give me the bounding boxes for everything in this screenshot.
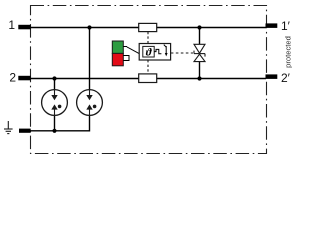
dashed actuator link R1 to thermal box <box>147 32 149 44</box>
enclosure dash-dot border <box>31 6 267 154</box>
wire line 2 (terminal 2 to 2') <box>22 78 266 80</box>
TVS bidirectional suppressor diode D1 <box>194 44 205 61</box>
wire TVS branch (line 1 to line 2) <box>199 28 201 79</box>
status indicator green flag <box>112 41 123 53</box>
junction node line2/GDT1 <box>52 76 56 80</box>
junction node ground/GDT1 <box>52 129 56 133</box>
svg-text:protected: protected <box>284 36 293 68</box>
thermal element box with theta <box>143 46 154 57</box>
terminal 2 (left bar) <box>18 76 30 81</box>
wire line 1 (top, terminal 1 to 1') <box>22 27 266 29</box>
svg-text:2: 2 <box>9 71 16 85</box>
indicator linkage top bar <box>123 46 127 48</box>
svg-text:2′: 2′ <box>281 71 291 85</box>
series impedance R2 (rect on line 2) <box>139 74 157 83</box>
indicator linkage bracket <box>123 56 129 61</box>
junction node line2/TVS <box>197 76 201 80</box>
actuator arrow <box>165 46 167 54</box>
series impedance R1 (rect on line 1) <box>139 23 157 31</box>
terminal 1 (left bar) <box>18 25 30 30</box>
status indicator red flag <box>112 53 123 65</box>
junction node line1/GDT2 <box>87 25 91 29</box>
terminal 2' (right bar) <box>266 74 278 79</box>
GDT F2 (right gas discharge tube) <box>77 90 103 116</box>
ground symbol <box>4 121 13 134</box>
wire left GDT branch (line 2 to ground line) <box>54 79 56 131</box>
thermal disconnector box U1 <box>139 44 170 61</box>
wire vertical from line 1 to right GDT <box>89 28 91 117</box>
breaking point step symbol <box>154 49 161 53</box>
terminal ground (bar) <box>19 129 31 133</box>
junction node line1/TVS <box>197 25 201 29</box>
wire ground line <box>22 115 90 131</box>
svg-text:1: 1 <box>8 18 15 32</box>
svg-text:1′: 1′ <box>281 19 291 33</box>
terminal 1' (right bar) <box>266 23 278 28</box>
indicator linkage switch arm diagonal <box>127 47 139 54</box>
dashed actuator link thermal box to TVS <box>171 52 193 54</box>
GDT F1 (left gas discharge tube) <box>42 90 68 116</box>
dashed actuator link thermal box to R2 <box>147 60 149 74</box>
